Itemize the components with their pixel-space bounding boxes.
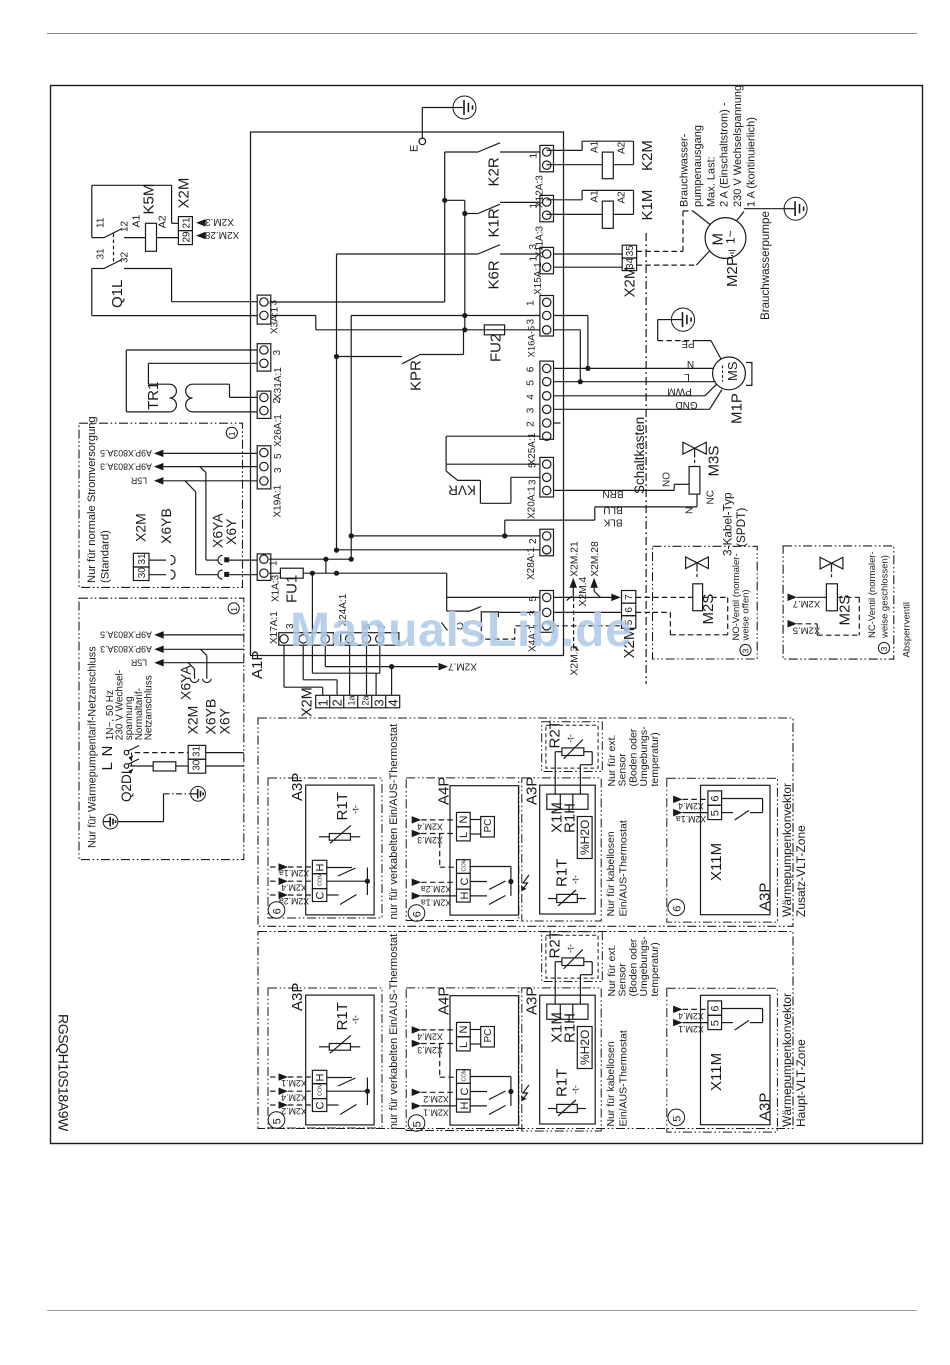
PE wire M1P xyxy=(711,341,721,359)
svg-text:temperatur): temperatur) xyxy=(649,942,661,996)
box Nur fuer Waermepumpentarif-Netzanschluss xyxy=(79,598,244,859)
terminals 5 6 row5 xyxy=(708,1001,722,1015)
pcb A3P wireless row5 xyxy=(540,995,596,1124)
wireless link symbol row5 xyxy=(522,1085,530,1101)
svg-text:30: 30 xyxy=(137,567,148,579)
wire ref A9P.X803A.3 (box2) xyxy=(154,646,164,654)
svg-text:X2M.2: X2M.2 xyxy=(423,1094,449,1104)
svg-text:M2P: M2P xyxy=(724,256,741,287)
svg-text:A9P.X803A.5: A9P.X803A.5 xyxy=(100,630,152,640)
wire FU1 branch down xyxy=(311,573,313,673)
pcb A4P row5 xyxy=(450,996,519,1125)
svg-text:COM: COM xyxy=(318,873,324,886)
svg-text:X2M.4: X2M.4 xyxy=(578,576,589,606)
svg-text:L: L xyxy=(99,762,116,770)
wires R2T to X1M row6 xyxy=(554,752,556,794)
svg-text:M1P: M1P xyxy=(729,393,746,424)
svg-text:Netzanschluss: Netzanschluss xyxy=(143,675,154,740)
svg-text:X2M.3: X2M.3 xyxy=(205,216,234,227)
box wireless A3P row5 xyxy=(522,988,601,1131)
page frame xyxy=(51,86,923,1144)
svg-text:-t-: -t- xyxy=(571,1085,582,1094)
svg-text:X2M.1a: X2M.1a xyxy=(421,898,451,908)
connector X15A:1 xyxy=(540,247,554,273)
wires R2T to X1M row5 xyxy=(554,962,556,1004)
section box VLT zone row5 xyxy=(258,932,793,1129)
svg-text:(SPDT): (SPDT) xyxy=(734,508,748,547)
svg-text:3: 3 xyxy=(528,479,539,485)
plug pair X6YA xyxy=(218,555,223,564)
wires to plugs X6YA (box1) xyxy=(200,467,206,473)
svg-text:GND: GND xyxy=(675,399,697,410)
breaker Q2DI pole L xyxy=(124,764,129,769)
mark circle X11M row6 xyxy=(668,899,685,916)
svg-text:A2: A2 xyxy=(157,215,169,228)
box wired thermostat A3P row6 xyxy=(268,778,382,918)
svg-text:29: 29 xyxy=(182,231,193,243)
svg-text:X2M.3: X2M.3 xyxy=(417,1045,443,1055)
svg-text:X6Y: X6Y xyxy=(217,707,233,734)
wire X4A pin2 to cell 6 xyxy=(554,611,622,613)
thermistor R2T row5 xyxy=(562,958,584,966)
svg-text:5: 5 xyxy=(272,1118,284,1124)
svg-text:X2M.5: X2M.5 xyxy=(793,624,820,635)
terminals H COM C row6 xyxy=(312,860,326,873)
svg-text:X2M.4: X2M.4 xyxy=(678,1011,704,1021)
wireless link symbol row6 xyxy=(522,875,530,891)
svg-text:Nur für kabellosen: Nur für kabellosen xyxy=(605,1041,617,1126)
dashed wires M2S NO xyxy=(636,596,693,598)
svg-text:X6YA: X6YA xyxy=(178,665,194,700)
svg-text:Q2DI: Q2DI xyxy=(119,770,134,802)
svg-text:X11M: X11M xyxy=(708,1053,725,1091)
svg-text:2: 2 xyxy=(272,398,283,404)
svg-text:N: N xyxy=(458,816,470,824)
bus H2 with fuse FU2 xyxy=(271,315,316,317)
wire PWM xyxy=(554,395,706,397)
svg-text:A1: A1 xyxy=(590,140,601,153)
wire X2M.7 out xyxy=(325,666,438,668)
pcb A4P row6 xyxy=(450,786,519,915)
svg-text:Nur für kabellosen: Nur für kabellosen xyxy=(605,831,617,916)
svg-text:C: C xyxy=(459,878,471,886)
coil K1M xyxy=(602,201,613,228)
wire ref X2M.4 to N row6 xyxy=(412,816,422,824)
wire ref X2M.3 xyxy=(196,219,206,227)
relay K5M circuit wires xyxy=(92,184,172,186)
connector X25A:1 xyxy=(540,361,554,439)
svg-text:X2M.2a: X2M.2a xyxy=(421,884,451,894)
svg-text:2a: 2a xyxy=(360,695,370,705)
boundary Schaltkasten xyxy=(645,233,647,684)
mark circle row5 xyxy=(268,1112,285,1129)
wire refs C H row5 xyxy=(412,1089,422,1097)
svg-text:RGSQH10S18A9W: RGSQH10S18A9W xyxy=(56,1014,72,1132)
svg-text:6: 6 xyxy=(709,795,721,801)
svg-text:X2M.28: X2M.28 xyxy=(204,229,239,240)
svg-text:6: 6 xyxy=(412,911,424,917)
wire to X28A pin1 xyxy=(351,535,540,537)
earth symbol M1P xyxy=(671,308,694,331)
svg-text:M3S: M3S xyxy=(706,446,723,477)
svg-text:11: 11 xyxy=(96,217,107,228)
terminal X2M 30/31 (box1) xyxy=(133,553,149,567)
wires Q1L to X3A xyxy=(171,269,173,302)
wire refs X2M.21 X2M.28 xyxy=(570,578,578,588)
svg-text:A9P.X803A.5: A9P.X803A.5 xyxy=(100,448,152,458)
svg-text:X31A:1: X31A:1 xyxy=(273,367,284,400)
coil K5M xyxy=(146,223,157,251)
dashed to X4A pin3 xyxy=(481,617,540,639)
svg-text:1: 1 xyxy=(526,300,537,306)
valve symbol M2S NO xyxy=(686,557,697,569)
svg-text:Absperrventil: Absperrventil xyxy=(902,602,913,657)
contact KVR xyxy=(446,463,540,465)
svg-text:X2M.4: X2M.4 xyxy=(281,882,307,892)
transformer TR1 xyxy=(126,349,257,351)
valve M3S xyxy=(683,442,695,454)
svg-text:R2T: R2T xyxy=(547,930,564,958)
terminals N L row6 xyxy=(457,812,471,826)
svg-text:3-Kabel-Typ: 3-Kabel-Typ xyxy=(721,492,735,556)
contact Q1L 31-32 xyxy=(92,268,104,270)
svg-text:temperatur): temperatur) xyxy=(649,732,661,786)
svg-text:N: N xyxy=(685,507,696,514)
svg-text:NC: NC xyxy=(706,490,717,504)
svg-text:X11M: X11M xyxy=(708,843,725,881)
connector X20A:1 xyxy=(540,457,554,497)
svg-text:Ein/AUS-Thermostat: Ein/AUS-Thermostat xyxy=(618,820,630,916)
switch contacts row5 xyxy=(327,1077,352,1079)
svg-text:5: 5 xyxy=(273,453,284,459)
svg-text:-t-: -t- xyxy=(351,1015,362,1024)
svg-text:X17A:1: X17A:1 xyxy=(269,611,280,644)
terminal E xyxy=(419,138,426,145)
svg-text:K5M: K5M xyxy=(141,184,158,215)
earth symbol (box2 left) xyxy=(103,814,118,829)
svg-text:M2S: M2S xyxy=(700,594,717,625)
wire ref to 5 row6 xyxy=(673,809,683,817)
connector X28A:1 xyxy=(540,529,554,556)
wire to E terminal xyxy=(422,107,453,109)
terminal X1M row5 xyxy=(547,1004,588,1019)
svg-text:R1T: R1T xyxy=(554,859,571,887)
svg-text:X2M.7: X2M.7 xyxy=(793,598,820,609)
svg-text:Ein/AUS-Thermostat: Ein/AUS-Thermostat xyxy=(618,1030,630,1126)
bus from X1A pin1 xyxy=(269,558,351,560)
tap to K1R xyxy=(445,199,465,201)
svg-text:COM: COM xyxy=(462,1068,468,1081)
terminal X2M 21/29 xyxy=(178,217,192,231)
wire refs C H row6 xyxy=(412,879,422,887)
svg-text:X6Y: X6Y xyxy=(223,518,239,545)
svg-text:K2R: K2R xyxy=(486,157,503,186)
bus B3 xyxy=(350,316,352,560)
svg-text:X25A:1: X25A:1 xyxy=(527,432,538,465)
bus B1 from X3A:1 pin1 xyxy=(271,301,445,303)
svg-text:TR1: TR1 xyxy=(145,382,162,410)
svg-text:X16A-5: X16A-5 xyxy=(527,326,538,358)
mark circle X11M row5 xyxy=(668,1109,685,1126)
svg-text:1: 1 xyxy=(529,256,540,262)
svg-text:6: 6 xyxy=(272,908,284,914)
terminals H COM C row5 xyxy=(312,1070,326,1083)
svg-text:-t-: -t- xyxy=(571,875,582,884)
svg-text:-t-: -t- xyxy=(566,944,577,953)
box Waermepumpenkonvektor X11M row6 xyxy=(667,778,778,922)
box NC-Ventil xyxy=(783,546,894,659)
svg-text:32: 32 xyxy=(120,251,131,263)
stub wires to X6YA sockets (box2) xyxy=(201,649,207,655)
svg-text:N: N xyxy=(687,358,694,369)
connector X31A:1 xyxy=(257,344,271,371)
connector strip X17A:1 xyxy=(279,633,334,646)
relay K2M xyxy=(547,149,583,151)
svg-text:NC-Ventil (normaler-: NC-Ventil (normaler- xyxy=(867,551,878,638)
svg-text:X26A:1: X26A:1 xyxy=(273,414,284,447)
svg-text:X2M.4: X2M.4 xyxy=(417,821,443,831)
svg-text:5: 5 xyxy=(709,810,721,816)
box Waermepumpenkonvektor X11M row5 xyxy=(667,988,778,1132)
wire to X28A pin2 xyxy=(337,549,540,551)
switch contacts row6 xyxy=(327,867,352,869)
wire ref to 6 row5 xyxy=(673,1006,683,1014)
svg-text:X20A:1: X20A:1 xyxy=(527,486,538,519)
svg-text:2: 2 xyxy=(526,421,537,427)
bracket at M1P xyxy=(746,363,752,386)
svg-text:R1H: R1H xyxy=(562,803,579,833)
svg-text:1 A (kontinuierlich): 1 A (kontinuierlich) xyxy=(746,117,758,207)
svg-text:X2M.2: X2M.2 xyxy=(281,1106,307,1116)
wire BRN to M3S xyxy=(554,489,675,491)
svg-text:Schaltkasten: Schaltkasten xyxy=(632,417,647,494)
connector X19A:1 xyxy=(257,446,271,489)
svg-text:X2M: X2M xyxy=(622,267,639,298)
wire ref X2M.5 (NC box) xyxy=(788,620,798,628)
wire refs into A3P row5 xyxy=(270,1076,279,1078)
wire ref A9P.X803A.3 xyxy=(154,463,164,471)
svg-text:R2T: R2T xyxy=(547,720,564,748)
terminal strip X2M 1..4 xyxy=(316,695,400,708)
dashed wires to pump M2P xyxy=(637,250,683,252)
terminals COM C H row6 xyxy=(457,860,471,874)
svg-text:ManualsLib.de: ManualsLib.de xyxy=(290,604,632,657)
svg-text:A3P: A3P xyxy=(757,1093,774,1121)
svg-text:A3P: A3P xyxy=(757,883,774,911)
connector X1A:3 xyxy=(257,554,271,581)
connector X4A:1 xyxy=(540,591,554,633)
wire ref X2M.3 to L row6 xyxy=(412,830,422,837)
contacts A4P row6 xyxy=(470,866,511,868)
svg-text:COM: COM xyxy=(318,1083,324,1096)
svg-text:1: 1 xyxy=(529,153,540,159)
wire X25A pin6 to KVR xyxy=(446,435,540,437)
svg-text:3: 3 xyxy=(526,407,537,413)
svg-text:21: 21 xyxy=(182,217,193,229)
bottom rule xyxy=(47,1310,917,1312)
svg-text:3: 3 xyxy=(272,350,283,356)
connector X26A:1 xyxy=(257,391,271,418)
wire ref X2M.3 to L row5 xyxy=(412,1040,422,1047)
switch X11M row6 xyxy=(722,798,763,800)
svg-text:A3P: A3P xyxy=(524,777,541,805)
svg-text:2: 2 xyxy=(528,538,539,544)
svg-text:A4P: A4P xyxy=(436,777,453,805)
wire ref A9P.X803A.5 (box2) xyxy=(154,631,164,639)
svg-text:Brauchwasser-: Brauchwasser- xyxy=(679,133,691,207)
earth symbol pump xyxy=(784,197,807,220)
svg-text:3: 3 xyxy=(528,244,539,250)
svg-text:PC: PC xyxy=(483,1029,494,1043)
svg-text:X2M.21: X2M.21 xyxy=(569,541,580,577)
breaker Q2DI pole N xyxy=(124,750,129,755)
wire N to fan motor xyxy=(554,315,588,317)
svg-text:X2M.7: X2M.7 xyxy=(448,660,477,671)
svg-text:X2M: X2M xyxy=(133,513,149,542)
svg-text:R1H: R1H xyxy=(562,1013,579,1043)
svg-text:31: 31 xyxy=(192,745,203,757)
svg-text:BLU: BLU xyxy=(603,504,622,515)
earth at top xyxy=(453,96,476,119)
actuator M2S NC xyxy=(826,584,837,611)
svg-text:X2M.1: X2M.1 xyxy=(281,1078,307,1088)
svg-text:X2M.1: X2M.1 xyxy=(423,1108,449,1118)
wire BLK xyxy=(594,507,596,520)
svg-text:Wärmepumpenkonvektor: Wärmepumpenkonvektor xyxy=(780,783,794,917)
connector X12A:3 xyxy=(540,145,554,171)
svg-text:L5R: L5R xyxy=(131,658,147,668)
svg-text:1a: 1a xyxy=(346,695,356,705)
svg-text:H: H xyxy=(459,892,471,900)
pcb A3P wired row5 xyxy=(306,995,374,1125)
svg-text:C: C xyxy=(315,1102,327,1110)
svg-text:X28A:1: X28A:1 xyxy=(526,547,537,580)
svg-text:NO: NO xyxy=(662,472,673,487)
svg-text:3: 3 xyxy=(273,467,284,473)
svg-text:R1T: R1T xyxy=(334,792,351,820)
svg-text:3: 3 xyxy=(879,646,889,651)
box %H2O row6 xyxy=(577,817,592,859)
svg-text:BRN: BRN xyxy=(602,488,623,499)
svg-text:H: H xyxy=(315,864,327,872)
svg-text:3: 3 xyxy=(741,648,751,653)
svg-text:COM: COM xyxy=(462,858,468,871)
actuator M2S NO xyxy=(693,584,703,611)
svg-text:H: H xyxy=(459,1102,471,1110)
box ext sensor R2T row6 xyxy=(542,722,603,772)
svg-text:K1M: K1M xyxy=(639,190,656,221)
svg-text:(Standard): (Standard) xyxy=(100,530,112,583)
fuse in Q2DI line xyxy=(153,762,176,771)
svg-text:BLK: BLK xyxy=(603,516,622,527)
svg-text:1: 1 xyxy=(227,431,237,436)
box NO-Ventil xyxy=(653,546,758,659)
box wired thermostat A3P row5 xyxy=(268,988,382,1128)
svg-text:1~: 1~ xyxy=(724,230,738,244)
PCB A1P outline xyxy=(251,132,564,656)
svg-text:X19A:1: X19A:1 xyxy=(273,484,284,517)
svg-text:A3P: A3P xyxy=(524,987,541,1015)
wire GND xyxy=(554,408,710,410)
svg-text:A9P.X803A.3: A9P.X803A.3 xyxy=(100,644,152,654)
svg-text:A1: A1 xyxy=(131,214,143,227)
contact at pump xyxy=(737,212,745,221)
terminal PC row5 xyxy=(481,1027,495,1048)
terminal X2M 5/6/7 xyxy=(622,591,636,604)
svg-text:R1T: R1T xyxy=(554,1069,571,1097)
svg-text:A9P.X803A.3: A9P.X803A.3 xyxy=(100,461,152,471)
wire ref A9P.X803A.5 xyxy=(154,450,164,458)
terminal X2M 34/35 xyxy=(554,253,623,255)
svg-text:6: 6 xyxy=(526,366,537,372)
svg-text:A1: A1 xyxy=(590,190,601,203)
contact KPR xyxy=(337,356,403,358)
svg-text:K1R: K1R xyxy=(486,208,503,237)
svg-text:X2M.4: X2M.4 xyxy=(417,1031,443,1041)
wire ref X2M.28 xyxy=(196,232,206,240)
svg-text:Wärmepumpenkonvektor: Wärmepumpenkonvektor xyxy=(780,993,794,1127)
connector strip X24A:1 xyxy=(341,633,399,646)
svg-text:X2M: X2M xyxy=(185,706,201,735)
svg-text:R1T: R1T xyxy=(334,1002,351,1030)
svg-text:X15A:1: X15A:1 xyxy=(533,262,544,295)
mark 1 in circle xyxy=(226,427,237,438)
wire ref X2M.4 to N row5 xyxy=(412,1026,422,1034)
svg-text:weise geschlossen): weise geschlossen) xyxy=(880,555,891,639)
stub X25A pin5 xyxy=(554,422,561,424)
svg-text:X2M.4: X2M.4 xyxy=(281,1092,307,1102)
wire ref L5R (box2) xyxy=(154,659,164,667)
terminals COM C H row5 xyxy=(457,1070,471,1084)
svg-text:FU2: FU2 xyxy=(488,334,505,362)
terminals 5 6 row6 xyxy=(708,791,722,805)
pump M2P xyxy=(705,218,746,259)
svg-text:X6YB: X6YB xyxy=(158,508,174,544)
svg-text:C: C xyxy=(315,892,327,900)
svg-text:Max. Last:: Max. Last: xyxy=(705,156,717,207)
svg-text:-t-: -t- xyxy=(566,734,577,743)
svg-text:-t-: -t- xyxy=(351,805,362,814)
svg-text:nur für verkabelten Ein/AUS-Th: nur für verkabelten Ein/AUS-Thermostat xyxy=(388,724,400,920)
svg-text:K2M: K2M xyxy=(639,140,656,171)
svg-text:C: C xyxy=(459,1088,471,1096)
contact K1R xyxy=(465,213,478,215)
svg-text:MS: MS xyxy=(725,361,740,381)
wire refs into A3P row6 xyxy=(270,866,279,868)
svg-text:Haupt-VLT-Zone: Haupt-VLT-Zone xyxy=(794,1039,808,1127)
svg-text:5: 5 xyxy=(709,1020,721,1026)
svg-text:PC: PC xyxy=(483,819,494,833)
wire ref L5R xyxy=(154,477,164,485)
fuse FU2 xyxy=(484,325,504,335)
svg-text:M2S: M2S xyxy=(837,595,854,626)
fan-out wires X17A to X2M strip xyxy=(283,645,285,687)
svg-text:L: L xyxy=(684,371,690,382)
svg-text:X2M.1a: X2M.1a xyxy=(676,814,706,824)
pcb A3P wired row6 xyxy=(306,785,374,915)
svg-text:A2: A2 xyxy=(617,141,628,154)
svg-text:6: 6 xyxy=(671,906,683,912)
mark circle row6 xyxy=(268,902,285,919)
svg-text:12: 12 xyxy=(120,220,131,232)
svg-text:1: 1 xyxy=(269,560,280,566)
svg-text:L: L xyxy=(458,832,470,838)
top rule xyxy=(47,33,917,35)
thermistor R2T row6 xyxy=(562,748,584,756)
svg-text:A3P: A3P xyxy=(289,773,306,801)
svg-text:X2M.3: X2M.3 xyxy=(417,835,443,845)
svg-text:4: 4 xyxy=(386,699,401,706)
